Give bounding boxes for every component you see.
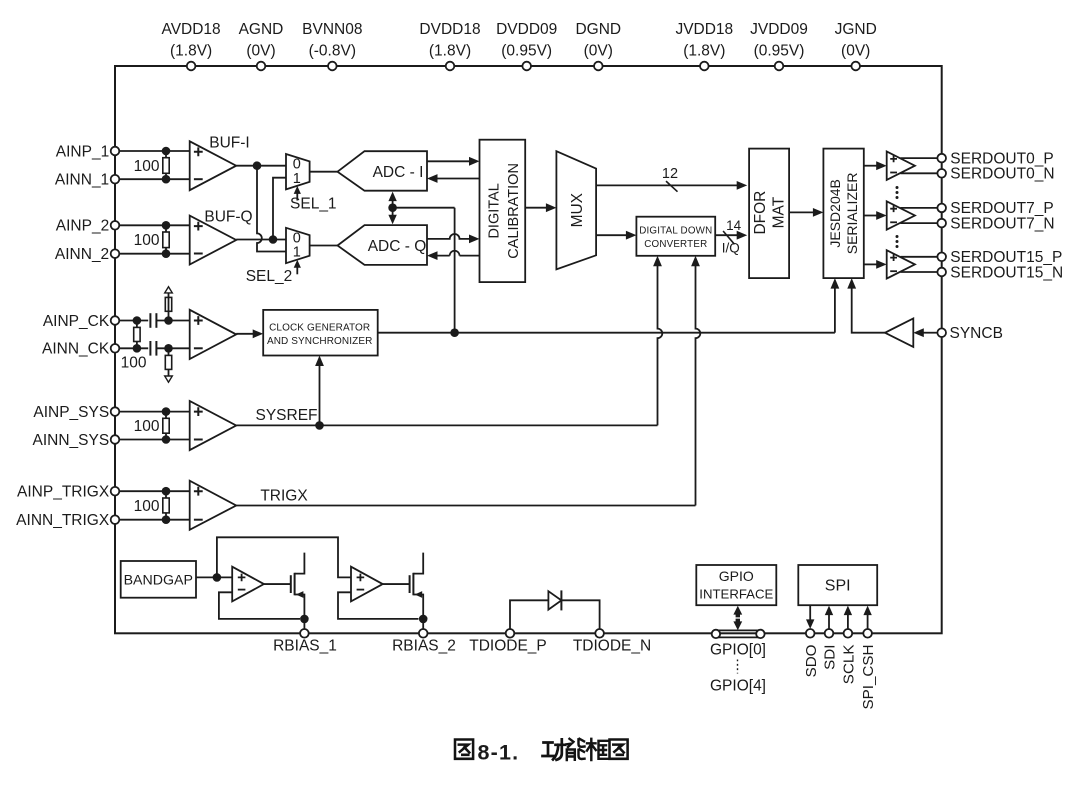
op-amp BUF-I	[190, 141, 237, 190]
op-amp output driver 2	[887, 250, 915, 278]
svg-text:DIGITAL: DIGITAL	[487, 183, 503, 238]
svg-text:BANDGAP: BANDGAP	[124, 573, 193, 589]
op-amp bias amp 1	[232, 567, 264, 602]
wire TRIGX riser to DDC with hop	[696, 265, 701, 506]
diode thermal	[548, 591, 561, 609]
wire SYSREF riser to DDC with hop	[658, 265, 663, 426]
power pin BVNN08	[328, 62, 337, 71]
pin SERDOUT0_P	[937, 154, 946, 163]
svg-text:1: 1	[293, 171, 301, 187]
svg-text:100: 100	[121, 354, 147, 371]
svg-text:SCLK: SCLK	[841, 645, 858, 685]
svg-text:AND SYNCHRONIZER: AND SYNCHRONIZER	[267, 336, 373, 347]
svg-text:JESD204B: JESD204B	[827, 179, 843, 247]
wire bias1 gate	[264, 583, 291, 585]
ellipsis GPIO	[737, 660, 739, 674]
svg-text:SDO: SDO	[803, 644, 820, 677]
bus width slash 14	[723, 231, 734, 244]
wire AINP_2 to BUF-Q	[119, 224, 189, 226]
node BUF-I output junction	[253, 161, 262, 170]
pin GPIO bus right	[756, 630, 764, 638]
wire SEL_2 to ADC-Q	[310, 245, 338, 247]
wire RBIAS_2	[422, 619, 424, 633]
resistor 100 ch1	[165, 151, 167, 158]
wire SEL_1 to ADC-I	[310, 171, 338, 173]
wire ADC-I to DIGITAL CALIBRATION	[427, 160, 471, 162]
svg-text:AINN_2: AINN_2	[55, 246, 109, 263]
svg-text:AINP_TRIGX: AINP_TRIGX	[17, 484, 110, 501]
svg-text:GPIO[4]: GPIO[4]	[710, 677, 766, 694]
pin AINN_1	[111, 175, 120, 184]
chip outline border	[115, 66, 942, 633]
svg-text:DGND: DGND	[575, 21, 621, 38]
wire AINN_2 to BUF-Q	[119, 253, 189, 255]
svg-text:RBIAS_1: RBIAS_1	[273, 638, 337, 655]
svg-text:TRIGX: TRIGX	[260, 487, 308, 504]
svg-text:AINP_CK: AINP_CK	[43, 313, 110, 330]
pin AINN_CK	[111, 344, 120, 353]
svg-text:GPIO: GPIO	[719, 568, 754, 584]
svg-text:AINP_1: AINP_1	[56, 143, 109, 160]
node RBIAS_1 junction	[300, 615, 309, 624]
pin SERDOUT7_N	[937, 219, 946, 228]
pin GPIO bus left	[712, 630, 720, 638]
svg-text:MAT: MAT	[770, 196, 787, 228]
svg-text:(1.8V): (1.8V)	[170, 43, 212, 60]
capacitor AINN_CK	[149, 341, 151, 356]
wire DDC to DFORMAT bus 14	[715, 234, 738, 236]
wire ADC clock distribution double arrow	[392, 198, 394, 217]
wire AINN_1 to BUF-I	[119, 178, 189, 180]
wire AINP_1 to BUF-I	[119, 150, 189, 152]
op-amp bias amp 2	[351, 567, 383, 602]
pin SERDOUT15_P	[937, 252, 946, 261]
transistor Q2	[409, 575, 411, 593]
mux SEL_2	[286, 228, 310, 263]
wire BUF-I to SEL_2 crossover with hop	[257, 166, 286, 252]
wire SERDOUT7_P	[901, 207, 942, 209]
wire TRIGX net	[236, 505, 695, 507]
SEL_2 select arrow	[296, 266, 298, 274]
wire JESD204B to output buffer 1	[864, 215, 878, 217]
svg-text:(-0.8V): (-0.8V)	[309, 43, 356, 60]
block BANDGAP	[121, 561, 196, 598]
svg-text:100: 100	[134, 418, 160, 435]
node clock riser junction	[450, 328, 459, 337]
svg-text:GPIO[0]: GPIO[0]	[710, 641, 766, 658]
svg-text:1: 1	[293, 245, 301, 261]
pin SDO	[806, 629, 815, 638]
svg-text:100: 100	[134, 232, 160, 249]
block DFORMAT	[749, 149, 789, 279]
svg-text:MUX: MUX	[569, 192, 586, 227]
svg-text:(1.8V): (1.8V)	[683, 43, 725, 60]
pin SERDOUT0_N	[937, 169, 946, 178]
wire SERDOUT0_P	[901, 157, 942, 159]
resistor 100 ch2	[165, 225, 167, 232]
power pin JGND	[851, 62, 860, 71]
svg-text:AGND: AGND	[239, 21, 284, 38]
pin AINP_1	[111, 147, 120, 156]
GPIO bidirectional arrow	[733, 606, 742, 630]
svg-text:AINN_TRIGX: AINN_TRIGX	[16, 512, 110, 529]
wire SERDOUT15_P	[901, 256, 942, 258]
node AINP_2 junction	[162, 221, 171, 230]
wire JESD204B to output buffer 0	[864, 165, 878, 167]
svg-text:8-1.: 8-1.	[478, 740, 520, 764]
wire AINN_TRIGX input	[119, 519, 189, 521]
GPIO bus connector	[714, 629, 762, 631]
capacitor AINP_CK	[149, 313, 151, 328]
svg-text:BVNN08: BVNN08	[302, 21, 362, 38]
wire TDIODE_P to diode	[510, 600, 548, 629]
svg-text:AINP_SYS: AINP_SYS	[33, 404, 109, 421]
node AINN_CK junctions	[133, 344, 142, 353]
wire AINP_TRIGX input	[119, 490, 189, 492]
svg-text:CALIBRATION: CALIBRATION	[506, 163, 522, 259]
wire clock receiver to clock generator	[236, 333, 255, 335]
wire ADC clock horizontal	[393, 207, 455, 209]
svg-text:SERIALIZER: SERIALIZER	[844, 173, 860, 255]
wire SPI SCLK	[847, 614, 849, 629]
wire RBIAS_1	[303, 619, 305, 633]
svg-text:12: 12	[662, 166, 678, 182]
node AINP_1 junction	[162, 147, 171, 156]
op-amp clock receiver	[190, 310, 237, 359]
pin AINN_TRIGX	[111, 515, 120, 524]
pin SPI_CSH	[863, 629, 872, 638]
block JESD204B SERIALIZER	[823, 149, 863, 279]
transistor Q1	[290, 575, 292, 593]
SEL_1 select arrow	[296, 193, 298, 201]
pin AINP_TRIGX	[111, 487, 120, 496]
power pin DVDD09	[522, 62, 531, 71]
svg-text:JGND: JGND	[835, 21, 877, 38]
svg-text:SYNCB: SYNCB	[950, 325, 1003, 342]
svg-text:AVDD18: AVDD18	[162, 21, 221, 38]
pin SCLK	[844, 629, 853, 638]
wire SPI SPI_CSH	[867, 614, 869, 629]
svg-text:RBIAS_2: RBIAS_2	[392, 638, 456, 655]
svg-text:SERDOUT15_N: SERDOUT15_N	[950, 264, 1063, 281]
buffer SYNCB receiver	[885, 319, 913, 347]
svg-text:DVDD18: DVDD18	[419, 21, 480, 38]
svg-text:SEL_1: SEL_1	[290, 195, 337, 212]
svg-text:(0V): (0V)	[584, 43, 613, 60]
wire clock generator to JESD204B	[378, 332, 835, 334]
power pin DVDD18	[446, 62, 455, 71]
caption hanzi gong	[543, 739, 566, 760]
termination arrow up	[165, 287, 173, 293]
svg-text:SERDOUT0_N: SERDOUT0_N	[950, 166, 1054, 183]
svg-text:INTERFACE: INTERFACE	[699, 587, 773, 602]
svg-text:AINP_2: AINP_2	[56, 218, 109, 235]
node AINN_1 junction	[162, 175, 171, 184]
power pin DGND	[594, 62, 603, 71]
pin SERDOUT7_P	[937, 204, 946, 213]
node SYSREF junction	[315, 421, 324, 430]
wire MUX to DIGITAL DOWN CONVERTER	[596, 234, 628, 236]
node BUF-Q output junction	[269, 235, 278, 244]
pin TDIODE_P	[506, 629, 515, 638]
pin AINP_SYS	[111, 407, 120, 416]
caption hanzi kuang	[587, 739, 607, 760]
op-amp SYSREF receiver	[190, 401, 237, 450]
resistor 100 trigx	[165, 491, 167, 498]
wire DIGITAL CALIBRATION to ADC-I	[436, 178, 480, 180]
pin RBIAS_1	[300, 629, 309, 638]
wire SPI SDO	[809, 605, 811, 620]
svg-text:JVDD18: JVDD18	[675, 21, 733, 38]
svg-text:SEL_2: SEL_2	[246, 268, 293, 285]
node AINN_TRIGX junction	[162, 515, 171, 524]
svg-text:DIGITAL DOWN: DIGITAL DOWN	[639, 226, 712, 237]
wire SYNCB input	[922, 332, 937, 334]
node AINP_CK junctions	[133, 316, 142, 325]
wire DFORMAT to JESD204B	[789, 211, 814, 213]
wire bias2 gate	[383, 583, 410, 585]
power pin AGND	[257, 62, 266, 71]
wire AINN_SYS input	[119, 439, 189, 441]
svg-text:BUF-I: BUF-I	[209, 134, 249, 151]
svg-text:DVDD09: DVDD09	[496, 21, 557, 38]
svg-text:BUF-Q: BUF-Q	[204, 209, 252, 226]
resistor pull-up clock	[168, 297, 170, 320]
wire SERDOUT15_N	[901, 271, 942, 273]
svg-text:I/Q: I/Q	[722, 240, 740, 255]
resistor 100 sysref	[165, 412, 167, 419]
svg-text:SERDOUT7_N: SERDOUT7_N	[950, 215, 1054, 232]
wire BUF-Q to SEL_1 crossover	[273, 178, 286, 240]
svg-text:(0V): (0V)	[841, 43, 870, 60]
svg-text:SDI: SDI	[822, 645, 839, 670]
node AINN_SYS junction	[162, 435, 171, 444]
svg-text:ADC - I: ADC - I	[373, 164, 424, 181]
svg-text:100: 100	[134, 158, 160, 175]
wire clock riser to clock generator net	[454, 208, 456, 333]
wire SYNCB to JESD204B	[852, 288, 885, 333]
wire SYSREF net	[236, 424, 657, 426]
node RBIAS_2 junction	[419, 615, 428, 624]
svg-text:AINN_CK: AINN_CK	[42, 341, 110, 358]
caption hanzi tu 2	[610, 740, 628, 759]
pin SDI	[825, 629, 834, 638]
mux SEL_1	[286, 154, 310, 189]
op-amp output driver 1	[887, 201, 915, 229]
wire SPI SDI	[828, 614, 830, 629]
op-amp BUF-Q	[190, 216, 237, 265]
wire bandgap reference rail	[217, 537, 351, 577]
power pin AVDD18	[187, 62, 196, 71]
wire JESD204B to output buffer 2	[864, 263, 878, 265]
svg-text:TDIODE_N: TDIODE_N	[573, 638, 651, 655]
ellipsis between buffers 0 and 7	[896, 186, 899, 189]
node AINP_SYS junction	[162, 407, 171, 416]
pin SERDOUT15_N	[937, 268, 946, 277]
svg-text:CLOCK GENERATOR: CLOCK GENERATOR	[269, 322, 370, 333]
block MUX	[556, 151, 596, 269]
wire BUF-I output	[236, 165, 286, 167]
block GPIO INTERFACE	[696, 565, 776, 605]
pin AINN_2	[111, 249, 120, 258]
wire ADC-Q to DIGITAL CALIBRATION with hop	[427, 234, 471, 239]
svg-text:SPI_CSH: SPI_CSH	[860, 645, 877, 710]
svg-text:SYSREF: SYSREF	[255, 407, 317, 424]
block CLOCK GENERATOR AND SYNCHRONIZER	[263, 310, 378, 356]
block ADC - I	[338, 151, 428, 191]
svg-text:100: 100	[134, 498, 160, 515]
svg-text:(0V): (0V)	[246, 43, 275, 60]
svg-text:DFOR: DFOR	[752, 191, 769, 235]
bus width slash 12	[666, 181, 678, 192]
wire SYSREF to clock generator	[319, 365, 321, 426]
node BANDGAP output junction	[213, 573, 222, 582]
svg-text:ADC - Q: ADC - Q	[368, 238, 427, 255]
pin SYNCB	[937, 328, 946, 337]
op-amp output driver 0	[887, 152, 915, 180]
block ADC - Q	[338, 225, 428, 265]
node ADC clock junction	[388, 203, 397, 212]
wire SERDOUT0_N	[901, 172, 942, 174]
svg-text:JVDD09: JVDD09	[750, 21, 808, 38]
pin AINN_SYS	[111, 435, 120, 444]
pin AINP_CK	[111, 316, 120, 325]
ellipsis between buffers 7 and 15	[896, 235, 899, 238]
resistor pull-down clock	[168, 348, 170, 355]
block SPI	[798, 565, 877, 605]
block DIGITAL DOWN CONVERTER	[636, 217, 715, 256]
power pin JVDD09	[775, 62, 784, 71]
svg-text:CONVERTER: CONVERTER	[644, 239, 707, 250]
svg-text:SPI: SPI	[825, 578, 851, 595]
block DIGITAL CALIBRATION	[480, 140, 526, 282]
wire AINP_CK input	[119, 320, 148, 322]
wire bias2 feedback	[338, 592, 419, 619]
svg-text:(0.95V): (0.95V)	[754, 43, 805, 60]
wire DIGITAL CALIBRATION to MUX	[525, 207, 547, 209]
node AINN_2 junction	[162, 249, 171, 258]
svg-text:14: 14	[726, 218, 742, 233]
op-amp TRIGX receiver	[190, 481, 237, 530]
svg-text:(1.8V): (1.8V)	[429, 43, 471, 60]
power pin JVDD18	[700, 62, 709, 71]
svg-text:AINN_1: AINN_1	[55, 172, 109, 189]
svg-text:AINN_SYS: AINN_SYS	[33, 432, 110, 449]
wire diode to TDIODE_N	[561, 600, 599, 629]
wire DIGITAL CALIBRATION to ADC-Q with hop	[436, 251, 480, 256]
pin AINP_2	[111, 221, 120, 230]
wire SERDOUT7_N	[901, 222, 942, 224]
wire BANDGAP output	[196, 576, 232, 578]
wire BUF-Q output	[236, 239, 286, 241]
svg-text:TDIODE_P: TDIODE_P	[469, 638, 547, 655]
pin RBIAS_2	[419, 629, 428, 638]
wire bias1 feedback	[219, 592, 300, 619]
termination arrow down	[165, 376, 173, 382]
wire AINP_SYS input	[119, 411, 189, 413]
resistor 100 clock	[136, 321, 138, 328]
wire AINN_CK input	[119, 347, 148, 349]
node AINP_TRIGX junction	[162, 487, 171, 496]
svg-text:(0.95V): (0.95V)	[501, 43, 552, 60]
caption hanzi tu (figure)	[455, 740, 473, 759]
pin TDIODE_N	[595, 629, 604, 638]
caption hanzi neng	[567, 739, 585, 760]
wire MUX to DFORMAT bus 12	[596, 184, 738, 186]
